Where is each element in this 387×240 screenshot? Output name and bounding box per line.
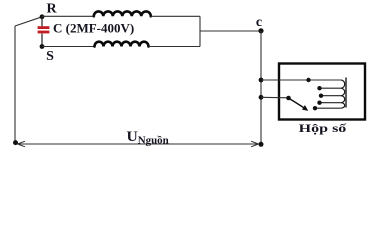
wire: bottom winding to right corner <box>149 46 201 48</box>
wire 2: into box to switch pivot <box>261 96 289 99</box>
tap dot 2 <box>317 86 321 90</box>
svg-text:S: S <box>46 49 54 64</box>
switch pivot dot <box>286 96 291 101</box>
wire: right vertical joining windings <box>199 16 201 46</box>
wire: left vertical rail <box>14 26 16 143</box>
coil turn arcs <box>341 80 345 88</box>
capacitor C plates (red) <box>38 26 50 29</box>
wire: R to top winding <box>42 15 94 17</box>
coil tap line 5 <box>315 107 341 109</box>
junction dot bottom-right <box>259 142 264 147</box>
coil tap line 4 <box>320 102 341 104</box>
junction dot at wire 2 <box>259 95 264 100</box>
svg-text:Hộp số: Hộp số <box>299 123 348 135</box>
box Hộp số <box>279 64 365 120</box>
tap dot 4 <box>317 101 321 105</box>
tap dot 3 <box>319 94 323 98</box>
wire: capacitor bottom lead <box>41 34 43 47</box>
dimension arrow line U Nguồn <box>19 143 258 145</box>
coil core bar <box>345 78 347 108</box>
coil tap line 3 <box>321 95 341 97</box>
tap dot 5 <box>313 106 317 110</box>
winding (top coil) <box>94 11 151 16</box>
switch arm with arrowhead <box>289 98 304 108</box>
wire: right vertical rail <box>260 31 262 144</box>
junction dot: bottom-left <box>13 140 18 145</box>
right arrowhead <box>251 141 259 147</box>
svg-text:c: c <box>256 15 262 30</box>
node c <box>258 28 263 33</box>
wire: top winding to right corner <box>151 15 200 17</box>
wire: capacitor top lead <box>41 17 43 27</box>
svg-text:C (2MF-400V): C (2MF-400V) <box>53 21 134 36</box>
wire: S to bottom winding <box>42 46 94 48</box>
node S <box>40 44 45 49</box>
terminal dot on wire 1 <box>306 78 310 82</box>
left arrowhead <box>18 141 26 147</box>
wire: diagonal from left rail to node R <box>15 17 42 26</box>
wire: to node c <box>200 30 261 32</box>
winding (bottom coil) <box>95 42 149 47</box>
node R <box>40 14 45 19</box>
svg-text:R: R <box>46 1 57 16</box>
junction dot at wire 1 <box>259 78 264 83</box>
coil tap line 2 <box>320 87 341 89</box>
wire 1: into box to coil top <box>261 79 341 81</box>
